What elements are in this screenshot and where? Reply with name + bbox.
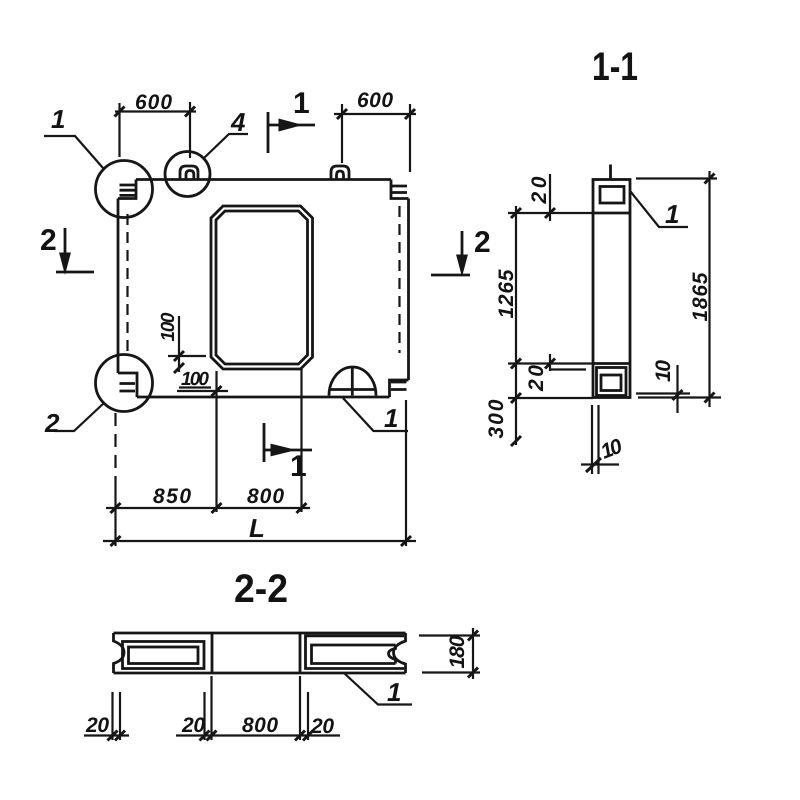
dim 1265: [508, 362, 592, 364]
dimension 850 800: [106, 507, 310, 509]
hidden dash line right: [398, 206, 400, 353]
corner key comb bottom-left: [120, 384, 136, 392]
dim 180: [419, 628, 480, 679]
bottom core hole: [601, 375, 621, 391]
svg-text:1865: 1865: [689, 272, 712, 321]
svg-text:100: 100: [181, 369, 209, 390]
leader 1 at dome: [343, 398, 408, 431]
top core hole: [600, 187, 624, 204]
middle rib line left: [211, 633, 214, 673]
dimension 100 horizontal: [177, 388, 228, 392]
dimension L overall: [103, 540, 416, 542]
corner key comb top-right: [392, 186, 407, 193]
section mark 1 bottom: [263, 423, 266, 462]
left core hole: [129, 647, 199, 664]
drain dome bottom right: [329, 367, 376, 395]
detail circle 2 bottom-left: [96, 355, 153, 412]
left core outer: [123, 642, 205, 669]
svg-text:1: 1: [387, 677, 401, 707]
dim 10 bottom joint: [581, 405, 619, 474]
svg-text:2-2: 2-2: [234, 567, 288, 611]
svg-text:20: 20: [310, 715, 334, 738]
strip divider bottom: [593, 362, 630, 365]
dimension 100 vertical: [168, 316, 206, 372]
svg-text:2: 2: [44, 408, 60, 438]
svg-text:1-1: 1-1: [592, 45, 638, 89]
panel bottom-left corner step: [118, 373, 137, 397]
bottom core outer: [597, 368, 627, 396]
axis tick above strip: [609, 165, 612, 180]
hidden dash line left: [126, 214, 128, 353]
svg-text:800: 800: [242, 714, 278, 737]
lifting loop right: [331, 166, 349, 180]
svg-text:10: 10: [652, 360, 675, 382]
svg-text:1: 1: [51, 104, 65, 134]
extension lines under opening: [217, 369, 302, 512]
panel right edge: [407, 199, 410, 381]
leader 4: [204, 134, 248, 158]
leader 1 top-left: [44, 136, 103, 168]
slab top edge: [114, 632, 406, 635]
dim 20 bottom: [550, 354, 586, 371]
door opening inner contour: [216, 211, 308, 364]
svg-text:1: 1: [665, 199, 679, 229]
svg-text:300: 300: [485, 399, 508, 438]
svg-text:1: 1: [384, 403, 398, 433]
panel bottom-right corner step: [390, 380, 409, 397]
svg-text:4: 4: [230, 107, 246, 137]
SECTION 2-2: [84, 567, 480, 741]
svg-text:600: 600: [357, 89, 393, 112]
dim 20 end wall: [84, 734, 129, 736]
corner key comb top-left: [120, 185, 136, 195]
right core hole: [312, 645, 396, 664]
extension line right lower: [405, 400, 407, 546]
section mark 1 top: [267, 112, 270, 153]
section mark 2 right: [431, 274, 470, 277]
strip divider top: [593, 212, 630, 215]
svg-text:1: 1: [290, 450, 307, 483]
door opening outer contour: [211, 206, 313, 369]
slab right end with groove: [394, 633, 406, 673]
section strip outline: [593, 180, 630, 398]
svg-text:20: 20: [181, 714, 205, 737]
dim 1865: [636, 171, 717, 407]
panel bottom edge: [137, 396, 390, 399]
detail circle 4: [165, 152, 210, 197]
dim 20 800 20: [176, 734, 340, 736]
slab left end with groove: [114, 633, 125, 673]
leader 2 bottom-left: [55, 403, 104, 431]
extension lines bottom: [113, 676, 309, 740]
dim 20 top: [508, 174, 593, 445]
panel top edge: [136, 178, 391, 181]
detail circle 1 top-left: [96, 161, 153, 218]
leader 1 section: [631, 192, 689, 228]
svg-text:20: 20: [85, 714, 109, 737]
panel top-left corner step: [118, 180, 136, 199]
panel left edge: [117, 199, 120, 374]
svg-text:100: 100: [158, 312, 179, 341]
svg-text:L: L: [249, 513, 265, 543]
slab bottom edge: [114, 672, 406, 675]
svg-text:1265: 1265: [495, 269, 518, 318]
dim 10 right: [636, 365, 721, 413]
svg-text:600: 600: [135, 91, 172, 114]
dimension 600 left: [115, 102, 196, 158]
svg-text:850: 850: [153, 485, 191, 508]
extension line left lower: [114, 413, 116, 486]
section mark 2 left: [56, 271, 94, 274]
leader 1 slab: [345, 674, 413, 705]
svg-text:1: 1: [293, 87, 310, 120]
corner key comb bottom-right: [391, 382, 407, 390]
dimension 600 right: [334, 104, 416, 172]
SECTION 1-1: [485, 45, 721, 474]
lifting loop in detail 4: [180, 166, 198, 180]
PLAN VIEW: [40, 87, 491, 546]
svg-text:800: 800: [247, 485, 284, 508]
svg-text:180: 180: [446, 635, 469, 668]
middle rib line right: [299, 633, 302, 673]
panel top-right corner step: [391, 180, 409, 199]
svg-text:2: 2: [474, 226, 491, 259]
right core outer: [306, 636, 405, 669]
svg-text:2: 2: [40, 224, 57, 257]
dim 300: [508, 397, 593, 399]
